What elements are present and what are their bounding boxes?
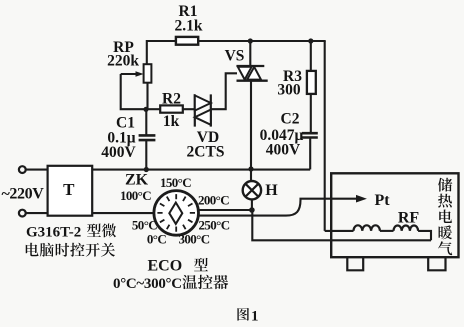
svg-text:ECO: ECO [148,258,183,275]
svg-text:C2: C2 [281,111,300,128]
wire dial to lamp node [199,209,252,211]
label figure 1 [237,308,258,325]
wire C1 top lead [145,109,147,135]
wire triac bottom lead [250,81,252,170]
potentiometer RP wiper arrow [121,71,144,77]
svg-text:T: T [63,180,75,199]
svg-text:H: H [265,182,278,199]
wire lamp top lead [250,169,252,181]
wire left branch down to RP [146,40,148,65]
label C1 [116,115,135,132]
label R2 [162,91,181,108]
svg-text:300: 300 [277,82,301,99]
label 250C [198,218,229,233]
wire lamp bottom lead [251,199,253,210]
wire upper terminal to T [26,169,48,171]
svg-text:Pt: Pt [374,192,390,209]
svg-text:150°C: 150°C [160,175,191,190]
label R1 [179,3,198,20]
svg-text:400V: 400V [101,144,136,161]
label diannao shikong kaiguan [26,243,115,257]
svg-text:1: 1 [251,309,259,325]
label R3 [283,68,302,85]
svg-text:1k: 1k [163,113,180,130]
label 0-300C wenkongqi [113,275,228,292]
node triac top junction [248,38,253,43]
wire C2 bottom lead [309,138,311,170]
label Pt [374,192,390,209]
heater enclosure [331,173,458,257]
label 100C [120,188,151,203]
svg-text:100°C: 100°C [120,188,151,203]
label VS [225,48,245,65]
label G316T-2 xing wei [26,223,116,240]
wire dial sense to Pt [198,199,356,216]
wire VD to triac gate [211,73,237,109]
svg-text:250°C: 250°C [198,218,229,233]
svg-text:220k: 220k [107,53,139,70]
svg-text:2.1k: 2.1k [175,18,203,35]
wire R3 top lead [310,41,312,71]
label 150C [160,175,191,190]
capacitor C2 [302,133,318,137]
resistor R1 [176,37,198,45]
capacitor C1 [139,135,156,140]
wire C1 bottom lead [145,140,147,169]
label 300 [277,82,301,99]
thermostat dial [154,191,199,236]
svg-text:0°C~300°C: 0°C~300°C [113,276,182,292]
label ZK [125,172,149,189]
wire R3 to C2 [310,94,312,133]
node C1 mid junction [144,167,149,172]
indicator lamp H [243,181,261,199]
svg-text:~220V: ~220V [2,186,45,203]
diac VD [195,94,211,126]
svg-text:R2: R2 [162,91,181,108]
label H [265,182,278,199]
label 220k [107,53,139,70]
label 50C [132,218,157,233]
node junction RP-C1-R2 [143,107,148,112]
heater foot left [347,257,363,270]
label 0C [147,231,166,246]
label 2CTS [187,144,225,161]
potentiometer RP body [144,64,152,83]
label 300C [178,231,209,246]
wire coil feed [325,230,354,232]
label 0.047u [260,127,304,144]
terminal lower [19,210,26,217]
wire lamp node down and right [252,210,431,240]
label 0.1u [107,130,135,147]
wire wiper loop [121,74,146,109]
heating element RF coil [354,225,432,240]
node lamp bottom junction [249,207,255,213]
svg-text:400V: 400V [266,142,301,159]
svg-text:50°C: 50°C [132,218,157,233]
timer box T [48,166,93,216]
label C2 400V [266,142,301,159]
label ~220V [2,186,45,203]
terminal upper [19,166,26,173]
heater foot right [428,257,445,270]
label T [63,180,75,199]
label 200C [198,193,229,208]
wire triac top lead [249,41,251,66]
label C2 [281,111,300,128]
svg-text:G316T-2: G316T-2 [26,225,81,241]
svg-text:RF: RF [398,210,420,227]
wire lower terminal to T [26,212,48,214]
label 2.1k [175,18,203,35]
svg-text:300°C: 300°C [178,231,209,246]
wire right outer drop [324,41,326,231]
triac VS [237,66,268,81]
node lamp mid junction [248,166,253,171]
wire top bus [147,40,326,42]
label 1k [163,113,180,130]
svg-text:2CTS: 2CTS [187,144,225,161]
wire T to dial [92,212,154,214]
arrow to Pt [356,195,367,203]
wire junction to R2 [146,108,160,110]
wire RP to junction [146,83,148,110]
label ECO xing [148,258,208,275]
resistor R2 [160,105,183,112]
label VD [197,129,219,146]
label C1 400V [101,144,136,161]
svg-text:ZK: ZK [125,172,149,189]
label RP [113,39,134,56]
resistor R3 [307,71,316,94]
node R3 top junction [308,38,313,43]
svg-text:VS: VS [225,48,245,65]
label RF [398,210,420,227]
svg-text:0°C: 0°C [147,231,166,246]
wire mid bus [92,169,310,171]
svg-text:200°C: 200°C [198,193,229,208]
label chu re dian nuan qi [438,178,452,255]
wire R2 to VD [183,108,195,110]
